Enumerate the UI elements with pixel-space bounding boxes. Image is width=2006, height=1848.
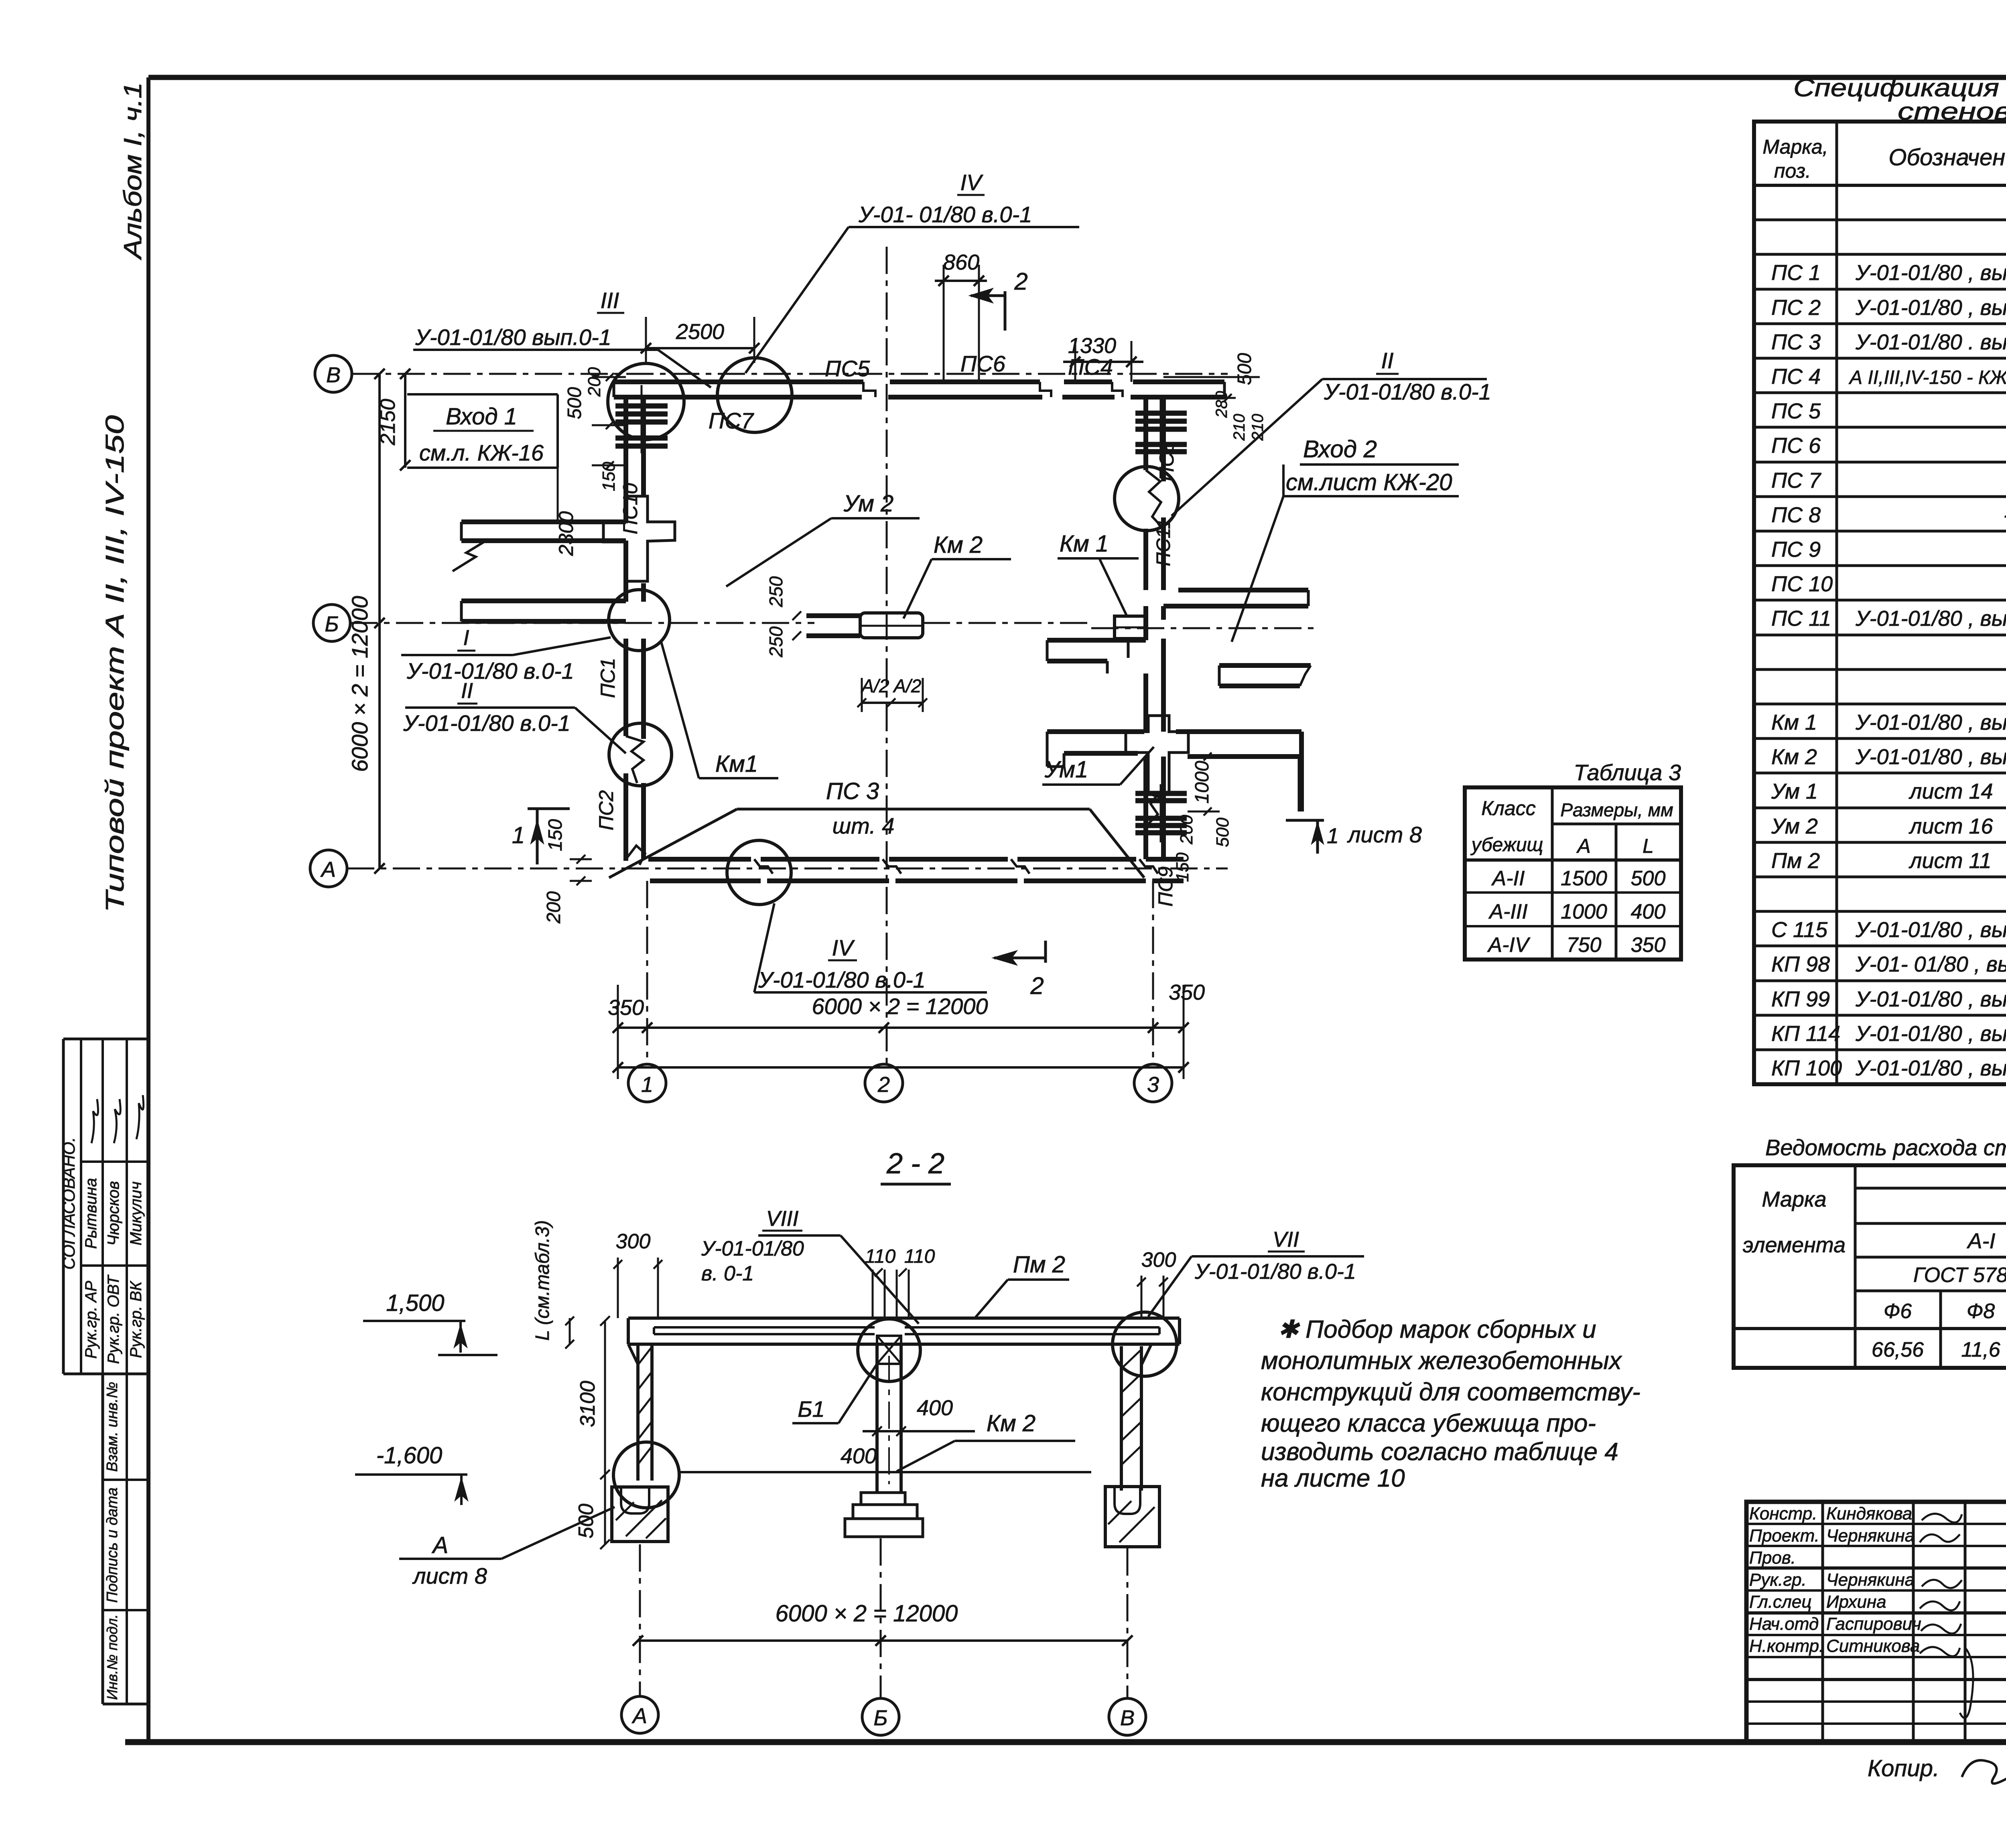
sidebar inventory strip (Взам.инв / Подпись и дата / Инв.№ подл.) bbox=[103, 1374, 148, 1704]
specification table title bbox=[1793, 74, 2006, 125]
elevation mark -1,600 bbox=[355, 1442, 467, 1505]
svg-text:110: 110 bbox=[865, 1246, 896, 1267]
monolith cross Ум2 at corridor junction bbox=[603, 496, 675, 581]
svg-text:Рук.гр.: Рук.гр. bbox=[1749, 1570, 1807, 1590]
svg-text:L: L bbox=[1643, 835, 1654, 857]
svg-text:Пм 2: Пм 2 bbox=[1013, 1252, 1065, 1278]
dimension 6000x2=12000 (left vertical) bbox=[347, 369, 385, 874]
svg-text:Вход 1: Вход 1 bbox=[446, 404, 517, 430]
svg-text:А: А bbox=[320, 858, 336, 882]
svg-text:VIII: VIII bbox=[766, 1207, 798, 1231]
svg-text:поз.: поз. bbox=[1774, 160, 1811, 182]
note: * Подбор марок ... bbox=[1261, 1316, 1641, 1492]
svg-text:1330: 1330 bbox=[1068, 334, 1116, 358]
svg-text:Ум 2: Ум 2 bbox=[1771, 814, 1818, 838]
Вход 2 corridor walls bbox=[1047, 590, 1311, 811]
svg-text:IV: IV bbox=[832, 935, 855, 960]
wall panels along axis В bbox=[614, 382, 1224, 397]
detail callout circle (top, IV) bbox=[717, 358, 792, 432]
title block (основная надпись) bbox=[1746, 1502, 2006, 1742]
svg-text:Рук.гр. АР: Рук.гр. АР bbox=[82, 1281, 100, 1359]
svg-text:изводить согласно таблице: изводить согласно таблице 4 bbox=[1261, 1438, 1618, 1466]
svg-text:Чернякина: Чернякина bbox=[1826, 1526, 1915, 1546]
svg-text:150: 150 bbox=[545, 819, 566, 851]
svg-text:ГОСТ 5781-82: ГОСТ 5781-82 bbox=[1913, 1264, 2006, 1287]
section bottom dim 6000x2=12000 bbox=[633, 1538, 1133, 1698]
svg-text:ющего класса убежища про: ющего класса убежища про- bbox=[1261, 1410, 1596, 1437]
svg-text:Инв.№ подл.: Инв.№ подл. bbox=[104, 1614, 120, 1700]
svg-text:500: 500 bbox=[1631, 867, 1666, 890]
svg-text:Марка,: Марка, bbox=[1762, 136, 1828, 158]
section mark 2 (bottom) bbox=[994, 941, 1046, 999]
svg-text:200: 200 bbox=[585, 367, 604, 397]
leader label Ум 2 bbox=[726, 491, 920, 586]
detail callout circle (top-left, III) bbox=[608, 363, 684, 440]
svg-text:300: 300 bbox=[1141, 1248, 1176, 1272]
dims 110 110 (top of middle column) bbox=[865, 1246, 935, 1318]
svg-text:6000 × 2 = 12000: 6000 × 2 = 12000 bbox=[347, 596, 372, 772]
svg-text:1: 1 bbox=[641, 1073, 653, 1097]
svg-text:лист 16: лист 16 bbox=[1909, 814, 1994, 838]
dims А/2 А/2 (below Км2) bbox=[857, 676, 927, 712]
leader label Ум1 (right) bbox=[1042, 747, 1154, 785]
axis 1 (vertical) bbox=[628, 881, 666, 1102]
dim 500 (rotated, footing) bbox=[575, 1475, 610, 1549]
leader label II У-01-01/80 в.0-1 bbox=[403, 679, 626, 753]
svg-text:250: 250 bbox=[765, 576, 786, 607]
callout circle Км1 (axis Б / left wall) bbox=[609, 590, 670, 651]
svg-text:400: 400 bbox=[841, 1444, 877, 1468]
svg-text:лист 14: лист 14 bbox=[1909, 779, 1993, 803]
svg-text:Ф8: Ф8 bbox=[1967, 1300, 1995, 1323]
svg-text:КП 98: КП 98 bbox=[1771, 952, 1830, 976]
svg-text:210: 210 bbox=[1249, 414, 1267, 441]
svg-text:У-01-01/80 . вып. 1: У-01-01/80 . вып. 1 bbox=[1855, 330, 2006, 354]
svg-text:1500: 1500 bbox=[1561, 867, 1607, 890]
leader label II У-01-01/80 в.0-1 (top right) bbox=[1172, 348, 1491, 516]
svg-text:Ирхина: Ирхина bbox=[1826, 1592, 1886, 1612]
svg-text:ПС 11: ПС 11 bbox=[1771, 607, 1831, 631]
axis А (horizontal) bbox=[310, 850, 1228, 887]
svg-text:на листе 10: на листе 10 bbox=[1261, 1465, 1405, 1492]
svg-text:Микулич: Микулич bbox=[127, 1181, 145, 1246]
section title 2-2 bbox=[881, 1148, 951, 1184]
svg-text:КП 100: КП 100 bbox=[1771, 1056, 1842, 1080]
svg-text:- ПС 2: - ПС 2 bbox=[2004, 503, 2006, 527]
svg-text:200: 200 bbox=[1177, 815, 1196, 845]
axis circle В (section) bbox=[1109, 1698, 1146, 1735]
svg-text:А-II: А-II bbox=[1491, 867, 1525, 890]
monolith cross Ум1 bbox=[1126, 716, 1188, 797]
svg-text:В: В bbox=[1120, 1706, 1135, 1730]
svg-text:КП 114: КП 114 bbox=[1771, 1022, 1840, 1046]
axis Б (horizontal) bbox=[313, 605, 1091, 641]
svg-text:Рытвина: Рытвина bbox=[82, 1178, 100, 1249]
left wall panels ПС10 ПС1 ПС2 bbox=[626, 397, 645, 865]
svg-text:200: 200 bbox=[543, 891, 564, 924]
callout circle (right beam end) bbox=[1113, 1312, 1177, 1376]
svg-text:Н.контр.: Н.контр. bbox=[1749, 1636, 1824, 1656]
svg-text:ПС1: ПС1 bbox=[597, 658, 619, 698]
Table 3 bbox=[1465, 787, 1681, 959]
svg-text:ПС5: ПС5 bbox=[825, 356, 870, 381]
svg-text:Рук.гр. ВК: Рук.гр. ВК bbox=[127, 1280, 145, 1358]
svg-text:3100: 3100 bbox=[576, 1381, 599, 1427]
svg-text:6000 × 2 = 12000: 6000 × 2 = 12000 bbox=[776, 1601, 958, 1627]
svg-text:Размеры, мм: Размеры, мм bbox=[1560, 799, 1673, 820]
svg-text:1000: 1000 bbox=[1561, 900, 1607, 923]
svg-text:Констр.: Констр. bbox=[1749, 1504, 1817, 1523]
svg-text:У-01-01/80 , вып. 1: У-01-01/80 , вып. 1 bbox=[1855, 607, 2006, 631]
svg-text:ПС 8: ПС 8 bbox=[1771, 503, 1821, 527]
svg-text:Типовой проект А II, III, IV: Типовой проект А II, III, IV-150 bbox=[100, 415, 129, 913]
svg-text:2: 2 bbox=[877, 1073, 890, 1097]
leader label А лист 8 bbox=[399, 1507, 615, 1588]
svg-text:В: В bbox=[326, 363, 341, 387]
dims 250/250 (left of Км2) bbox=[765, 576, 801, 657]
Table 3 title bbox=[1574, 760, 1681, 785]
svg-text:Чернякина: Чернякина bbox=[1826, 1570, 1915, 1590]
axis 2 (vertical centerline) bbox=[865, 247, 903, 1102]
ПС3 annotation parallelogram bbox=[609, 778, 1144, 878]
svg-text:ПС2: ПС2 bbox=[595, 790, 617, 830]
svg-text:СОГЛАСОВАНО.: СОГЛАСОВАНО. bbox=[59, 1137, 78, 1270]
svg-text:ПС 9: ПС 9 bbox=[1771, 538, 1821, 562]
section mark 1 лист 8 (right) bbox=[1286, 820, 1422, 854]
dim 3100 (rotated) bbox=[576, 1316, 610, 1479]
callout circle II (left wall) bbox=[609, 723, 672, 786]
label VIII У-01-01/80 в.0-1 bbox=[701, 1207, 919, 1324]
svg-text:6000 × 2 = 12000: 6000 × 2 = 12000 bbox=[812, 994, 988, 1019]
svg-text:А/2: А/2 bbox=[892, 676, 921, 696]
svg-text:Проект.: Проект. bbox=[1749, 1526, 1819, 1546]
svg-text:66,56: 66,56 bbox=[1872, 1338, 1924, 1361]
leader label Пм 2 bbox=[974, 1252, 1069, 1319]
svg-text:лист 8: лист 8 bbox=[1347, 822, 1422, 847]
bottom margin: Копир / order no / Формат bbox=[1868, 1752, 2006, 1797]
callout circle IV (bottom wall) bbox=[727, 840, 791, 905]
svg-text:Б: Б bbox=[325, 612, 339, 636]
rotated dims 150 / 200 (bottom-left) bbox=[543, 819, 592, 924]
svg-text:✱ Подбор марок сборных: ✱ Подбор марок сборных и bbox=[1278, 1316, 1596, 1343]
svg-text:лист 8: лист 8 bbox=[412, 1563, 487, 1588]
svg-text:250: 250 bbox=[765, 626, 786, 657]
svg-text:У-01-01/80: У-01-01/80 bbox=[701, 1237, 804, 1260]
elevation mark 1,500 bbox=[363, 1290, 497, 1355]
svg-text:см.лист КЖ-20: см.лист КЖ-20 bbox=[1286, 469, 1452, 495]
svg-text:350: 350 bbox=[1169, 980, 1205, 1004]
rotated dims near Ум1 bbox=[1173, 753, 1232, 882]
svg-text:11,6: 11,6 bbox=[1961, 1338, 2000, 1361]
left column (section) bbox=[628, 1344, 652, 1481]
svg-text:монолитных железобетонных: монолитных железобетонных bbox=[1261, 1347, 1622, 1375]
svg-text:У-01-01/80 в.0-1: У-01-01/80 в.0-1 bbox=[406, 658, 574, 684]
svg-text:Км1: Км1 bbox=[715, 751, 758, 777]
svg-text:в. 0-1: в. 0-1 bbox=[701, 1262, 754, 1285]
svg-text:Км 2: Км 2 bbox=[934, 532, 983, 558]
svg-text:Ум1: Ум1 bbox=[1044, 757, 1088, 783]
svg-text:Км 1: Км 1 bbox=[1060, 531, 1109, 557]
svg-text:II: II bbox=[1381, 348, 1393, 373]
svg-text:У-01-01/80 , вып. 0-1: У-01-01/80 , вып. 0-1 bbox=[1855, 745, 2006, 769]
specification table header bbox=[1762, 136, 2006, 182]
leader label Б1 bbox=[792, 1364, 877, 1423]
callout circle (beam-column joint Б1) bbox=[858, 1319, 920, 1381]
svg-text:500: 500 bbox=[564, 387, 585, 419]
svg-text:ПС 5: ПС 5 bbox=[1771, 399, 1821, 423]
svg-text:Ум 1: Ум 1 bbox=[1771, 779, 1818, 803]
svg-text:2: 2 bbox=[1030, 972, 1044, 999]
steel consumption table title bbox=[1765, 1135, 2006, 1160]
svg-text:КП 99: КП 99 bbox=[1771, 987, 1830, 1011]
specification table rows text bbox=[1771, 192, 2006, 1080]
svg-text:У-01-01/80 в.0-1: У-01-01/80 в.0-1 bbox=[758, 967, 926, 992]
Вход 1 corridor walls bbox=[453, 522, 626, 621]
svg-text:Подпись и дата: Подпись и дата bbox=[104, 1487, 121, 1603]
svg-text:1000: 1000 bbox=[1192, 761, 1213, 803]
svg-text:У-01-01/80 , вып. 5: У-01-01/80 , вып. 5 bbox=[1855, 987, 2006, 1011]
svg-text:ПС7: ПС7 bbox=[709, 408, 754, 433]
roof slab Пм2 (section) bbox=[628, 1318, 1180, 1344]
svg-text:ПС6: ПС6 bbox=[960, 351, 1006, 376]
svg-text:Пм 2: Пм 2 bbox=[1771, 849, 1820, 873]
svg-text:ПС 2: ПС 2 bbox=[1771, 296, 1821, 320]
svg-text:ПС 3: ПС 3 bbox=[826, 778, 879, 804]
svg-text:Взам. инв.№: Взам. инв.№ bbox=[104, 1382, 121, 1472]
svg-text:конструкций для соответств: конструкций для соответству- bbox=[1261, 1378, 1641, 1406]
svg-text:У-01-01/80 в.0-1: У-01-01/80 в.0-1 bbox=[1324, 379, 1491, 404]
callout circle II (right wall) bbox=[1115, 467, 1179, 531]
dimension 2150 bbox=[376, 369, 410, 471]
svg-text:400: 400 bbox=[1631, 900, 1666, 923]
svg-text:Альбом I, ч.1: Альбом I, ч.1 bbox=[119, 82, 147, 261]
axis circle Б (section) bbox=[862, 1698, 899, 1735]
label L (см.табл.3) rotated bbox=[532, 1220, 574, 1349]
middle column Км2 (section) bbox=[877, 1344, 901, 1493]
svg-text:2 - 2: 2 - 2 bbox=[886, 1148, 944, 1180]
svg-text:Б: Б bbox=[873, 1706, 887, 1730]
svg-text:У-01- 01/80 в.0-1: У-01- 01/80 в.0-1 bbox=[858, 202, 1032, 227]
svg-text:У-01-01/80 , вып. 0-1: У-01-01/80 , вып. 0-1 bbox=[1855, 710, 2006, 734]
svg-text:2: 2 bbox=[1014, 268, 1027, 295]
svg-text:Рук.гр. ОВТ: Рук.гр. ОВТ bbox=[105, 1274, 122, 1364]
leader label Км 1 (right) bbox=[1058, 531, 1139, 615]
middle column footing steps bbox=[845, 1493, 923, 1537]
dimension 860 bbox=[935, 250, 987, 382]
svg-text:У-01-01/80 , вып. 5: У-01-01/80 , вып. 5 bbox=[1855, 1056, 2006, 1080]
svg-text:2500: 2500 bbox=[676, 320, 724, 344]
svg-text:L (см.табл.3): L (см.табл.3) bbox=[532, 1220, 553, 1341]
wall stub and Км2 column (axis Б middle) bbox=[806, 613, 923, 638]
svg-text:Таблица 3: Таблица 3 bbox=[1574, 760, 1681, 785]
margin label: Альбом I, ч.1 bbox=[119, 82, 147, 261]
svg-text:А: А bbox=[432, 1532, 449, 1558]
axis circle А (section) bbox=[621, 1696, 658, 1733]
svg-text:1,500: 1,500 bbox=[386, 1290, 444, 1316]
svg-text:элемента: элемента bbox=[1743, 1233, 1846, 1257]
small tick lines left wall top bbox=[592, 373, 626, 469]
svg-text:400: 400 bbox=[917, 1396, 953, 1420]
dims 400 400 (middle column) bbox=[841, 1396, 975, 1468]
svg-text:ПС 7: ПС 7 bbox=[1771, 469, 1821, 493]
leader label I У-01-01/80 в.0-1 bbox=[401, 626, 611, 684]
svg-text:I: I bbox=[463, 626, 469, 650]
svg-text:3: 3 bbox=[1147, 1073, 1159, 1097]
svg-text:350: 350 bbox=[608, 996, 644, 1020]
axis В (horizontal) bbox=[315, 355, 1228, 392]
svg-text:А: А bbox=[1576, 835, 1590, 857]
svg-text:лист 11: лист 11 bbox=[1909, 849, 1992, 873]
svg-text:350: 350 bbox=[1631, 933, 1666, 957]
svg-text:210: 210 bbox=[1230, 414, 1248, 441]
dim 300 (right) bbox=[1137, 1248, 1176, 1318]
dim 300 (left) bbox=[613, 1230, 662, 1318]
leader label Км 2 (section) bbox=[897, 1410, 1075, 1471]
Вход 2 label box bbox=[1232, 436, 1459, 642]
svg-text:1: 1 bbox=[512, 822, 525, 848]
callout circle (left column base) bbox=[613, 1442, 679, 1508]
left footing (section) bbox=[612, 1487, 668, 1542]
dimension 2500 (top) bbox=[641, 317, 759, 363]
svg-text:750: 750 bbox=[1567, 933, 1602, 957]
svg-text:Км 2: Км 2 bbox=[1771, 745, 1817, 769]
svg-text:А II,III,IV-150 - КЖИ-П: А II,III,IV-150 - КЖИ-ПС1 bbox=[1848, 367, 2006, 388]
svg-text:1: 1 bbox=[1327, 824, 1339, 848]
bottom dimension row 6000x2=12000 bbox=[608, 980, 1205, 1079]
svg-text:ПС 1: ПС 1 bbox=[1771, 261, 1821, 285]
svg-text:А-IV: А-IV bbox=[1487, 933, 1530, 957]
bottom wall panels ПС3 x4 bbox=[648, 859, 1184, 881]
svg-text:III: III bbox=[601, 288, 619, 313]
svg-text:см.л. КЖ-16: см.л. КЖ-16 bbox=[419, 440, 544, 465]
svg-text:У-01-01/80 , вып. 1: У-01-01/80 , вып. 1 bbox=[1855, 261, 2006, 285]
margin label: Типовой проект А-II, III, IV-150 bbox=[100, 415, 129, 913]
right footing (section) bbox=[1105, 1487, 1159, 1547]
monolith joint hatches (right wall) bbox=[1135, 399, 1187, 842]
specification table grid bbox=[1754, 122, 2006, 1084]
svg-text:2150: 2150 bbox=[376, 399, 400, 446]
svg-text:Ведомость расхода стали на: Ведомость расхода стали на замоноличиван… bbox=[1765, 1135, 2006, 1160]
svg-text:Б1: Б1 bbox=[798, 1396, 825, 1422]
svg-text:Вход 2: Вход 2 bbox=[1303, 436, 1377, 463]
ground line (section) bbox=[680, 1471, 1091, 1473]
svg-text:500: 500 bbox=[1234, 353, 1255, 385]
svg-text:ПС 3: ПС 3 bbox=[1771, 330, 1821, 354]
leader label Км 2 bbox=[904, 532, 1011, 619]
svg-text:А-I: А-I bbox=[1966, 1229, 1995, 1253]
svg-text:500: 500 bbox=[1213, 818, 1232, 847]
svg-text:У-01-01/80 , вып. 5: У-01-01/80 , вып. 5 bbox=[1855, 918, 2006, 942]
svg-text:Киндякова: Киндякова bbox=[1826, 1504, 1912, 1523]
svg-text:Км 1: Км 1 bbox=[1771, 710, 1817, 734]
leader label Км1 (plan left) bbox=[661, 642, 778, 778]
svg-text:300: 300 bbox=[616, 1230, 651, 1253]
right column (section) bbox=[1121, 1344, 1151, 1491]
svg-text:500: 500 bbox=[575, 1504, 598, 1539]
svg-text:Класс: Класс bbox=[1481, 797, 1535, 820]
svg-text:У-01-01/80 в.0-1: У-01-01/80 в.0-1 bbox=[403, 710, 571, 736]
svg-text:Ум 2: Ум 2 bbox=[843, 491, 894, 517]
svg-text:У-01-01/80 вып.0-1: У-01-01/80 вып.0-1 bbox=[415, 325, 611, 350]
leader label IV У-01-01/80 в.0-1 (bottom) bbox=[754, 903, 987, 992]
axis 3 (vertical) bbox=[1134, 881, 1172, 1102]
svg-text:шт. 4: шт. 4 bbox=[832, 813, 895, 838]
section mark 2 (top) bbox=[971, 268, 1028, 331]
svg-text:ПС 6: ПС 6 bbox=[1771, 434, 1821, 458]
leader label III У-01-01/80 вып.0-1 bbox=[413, 288, 711, 387]
column Км1 rectangle (right wall, axis Б) bbox=[1115, 616, 1146, 639]
svg-text:Ситникова: Ситникова bbox=[1826, 1636, 1920, 1656]
svg-text:А-III: А-III bbox=[1488, 900, 1527, 923]
svg-text:150: 150 bbox=[1173, 852, 1192, 882]
right wall panels ПС8 ПС11 ПС9 bbox=[1146, 397, 1163, 861]
svg-text:Гаспирович: Гаспирович bbox=[1826, 1614, 1921, 1634]
dimension 1330 bbox=[1063, 334, 1143, 382]
svg-text:Ф6: Ф6 bbox=[1884, 1300, 1912, 1323]
svg-text:VII: VII bbox=[1273, 1227, 1299, 1252]
svg-text:II: II bbox=[461, 679, 473, 703]
svg-text:-1,600: -1,600 bbox=[376, 1442, 442, 1469]
svg-text:У-01- 01/80 , вып. 5: У-01- 01/80 , вып. 5 bbox=[1855, 952, 2006, 976]
rotated dims right wall top bbox=[1163, 353, 1267, 441]
svg-text:Марка: Марка bbox=[1762, 1187, 1826, 1211]
svg-text:IV: IV bbox=[960, 170, 984, 195]
svg-text:Пров.: Пров. bbox=[1749, 1548, 1796, 1568]
corridor centerline dash-dot bbox=[1091, 627, 1316, 629]
svg-text:У-01-01/80 , вып. 5: У-01-01/80 , вып. 5 bbox=[1855, 1022, 2006, 1046]
svg-text:110: 110 bbox=[904, 1246, 935, 1267]
svg-text:ПС 10: ПС 10 bbox=[1771, 572, 1833, 596]
svg-text:У-01-01/80 , вып.·1: У-01-01/80 , вып.·1 bbox=[1855, 296, 2006, 320]
section mark 1 (bottom-left) bbox=[512, 809, 570, 864]
svg-text:Гл.слец: Гл.слец bbox=[1749, 1592, 1811, 1612]
svg-text:убежищ: убежищ bbox=[1470, 834, 1543, 856]
svg-text:А: А bbox=[631, 1704, 647, 1728]
leader label IV У-01-01/80 в.0-1 bbox=[745, 170, 1079, 373]
monolith joint hatches (left wall top) bbox=[615, 385, 668, 453]
svg-text:ПС10: ПС10 bbox=[619, 483, 642, 534]
svg-text:280: 280 bbox=[1213, 391, 1230, 418]
sidebar approval table (СОГЛАСОВАНО) bbox=[59, 1039, 148, 1374]
svg-text:У-01-01/80 в.0-1: У-01-01/80 в.0-1 bbox=[1194, 1260, 1356, 1284]
svg-text:Чюрсков: Чюрсков bbox=[105, 1181, 122, 1246]
svg-text:860: 860 bbox=[943, 250, 979, 274]
svg-text:ПС 4: ПС 4 bbox=[1771, 365, 1821, 389]
label VII У-01-01/80 в.0-1 (right) bbox=[1148, 1227, 1364, 1317]
svg-text:А/2: А/2 bbox=[860, 676, 889, 696]
svg-text:Нач.отд: Нач.отд bbox=[1749, 1614, 1819, 1634]
svg-text:Км 2: Км 2 bbox=[987, 1410, 1035, 1436]
svg-text:Копир.: Копир. bbox=[1868, 1755, 1939, 1781]
steel consumption table bbox=[1734, 1164, 2006, 1368]
Вход 1 text box bbox=[407, 394, 558, 520]
svg-text:Обозначение: Обозначение bbox=[1888, 144, 2006, 170]
svg-text:С 115: С 115 bbox=[1771, 918, 1828, 942]
